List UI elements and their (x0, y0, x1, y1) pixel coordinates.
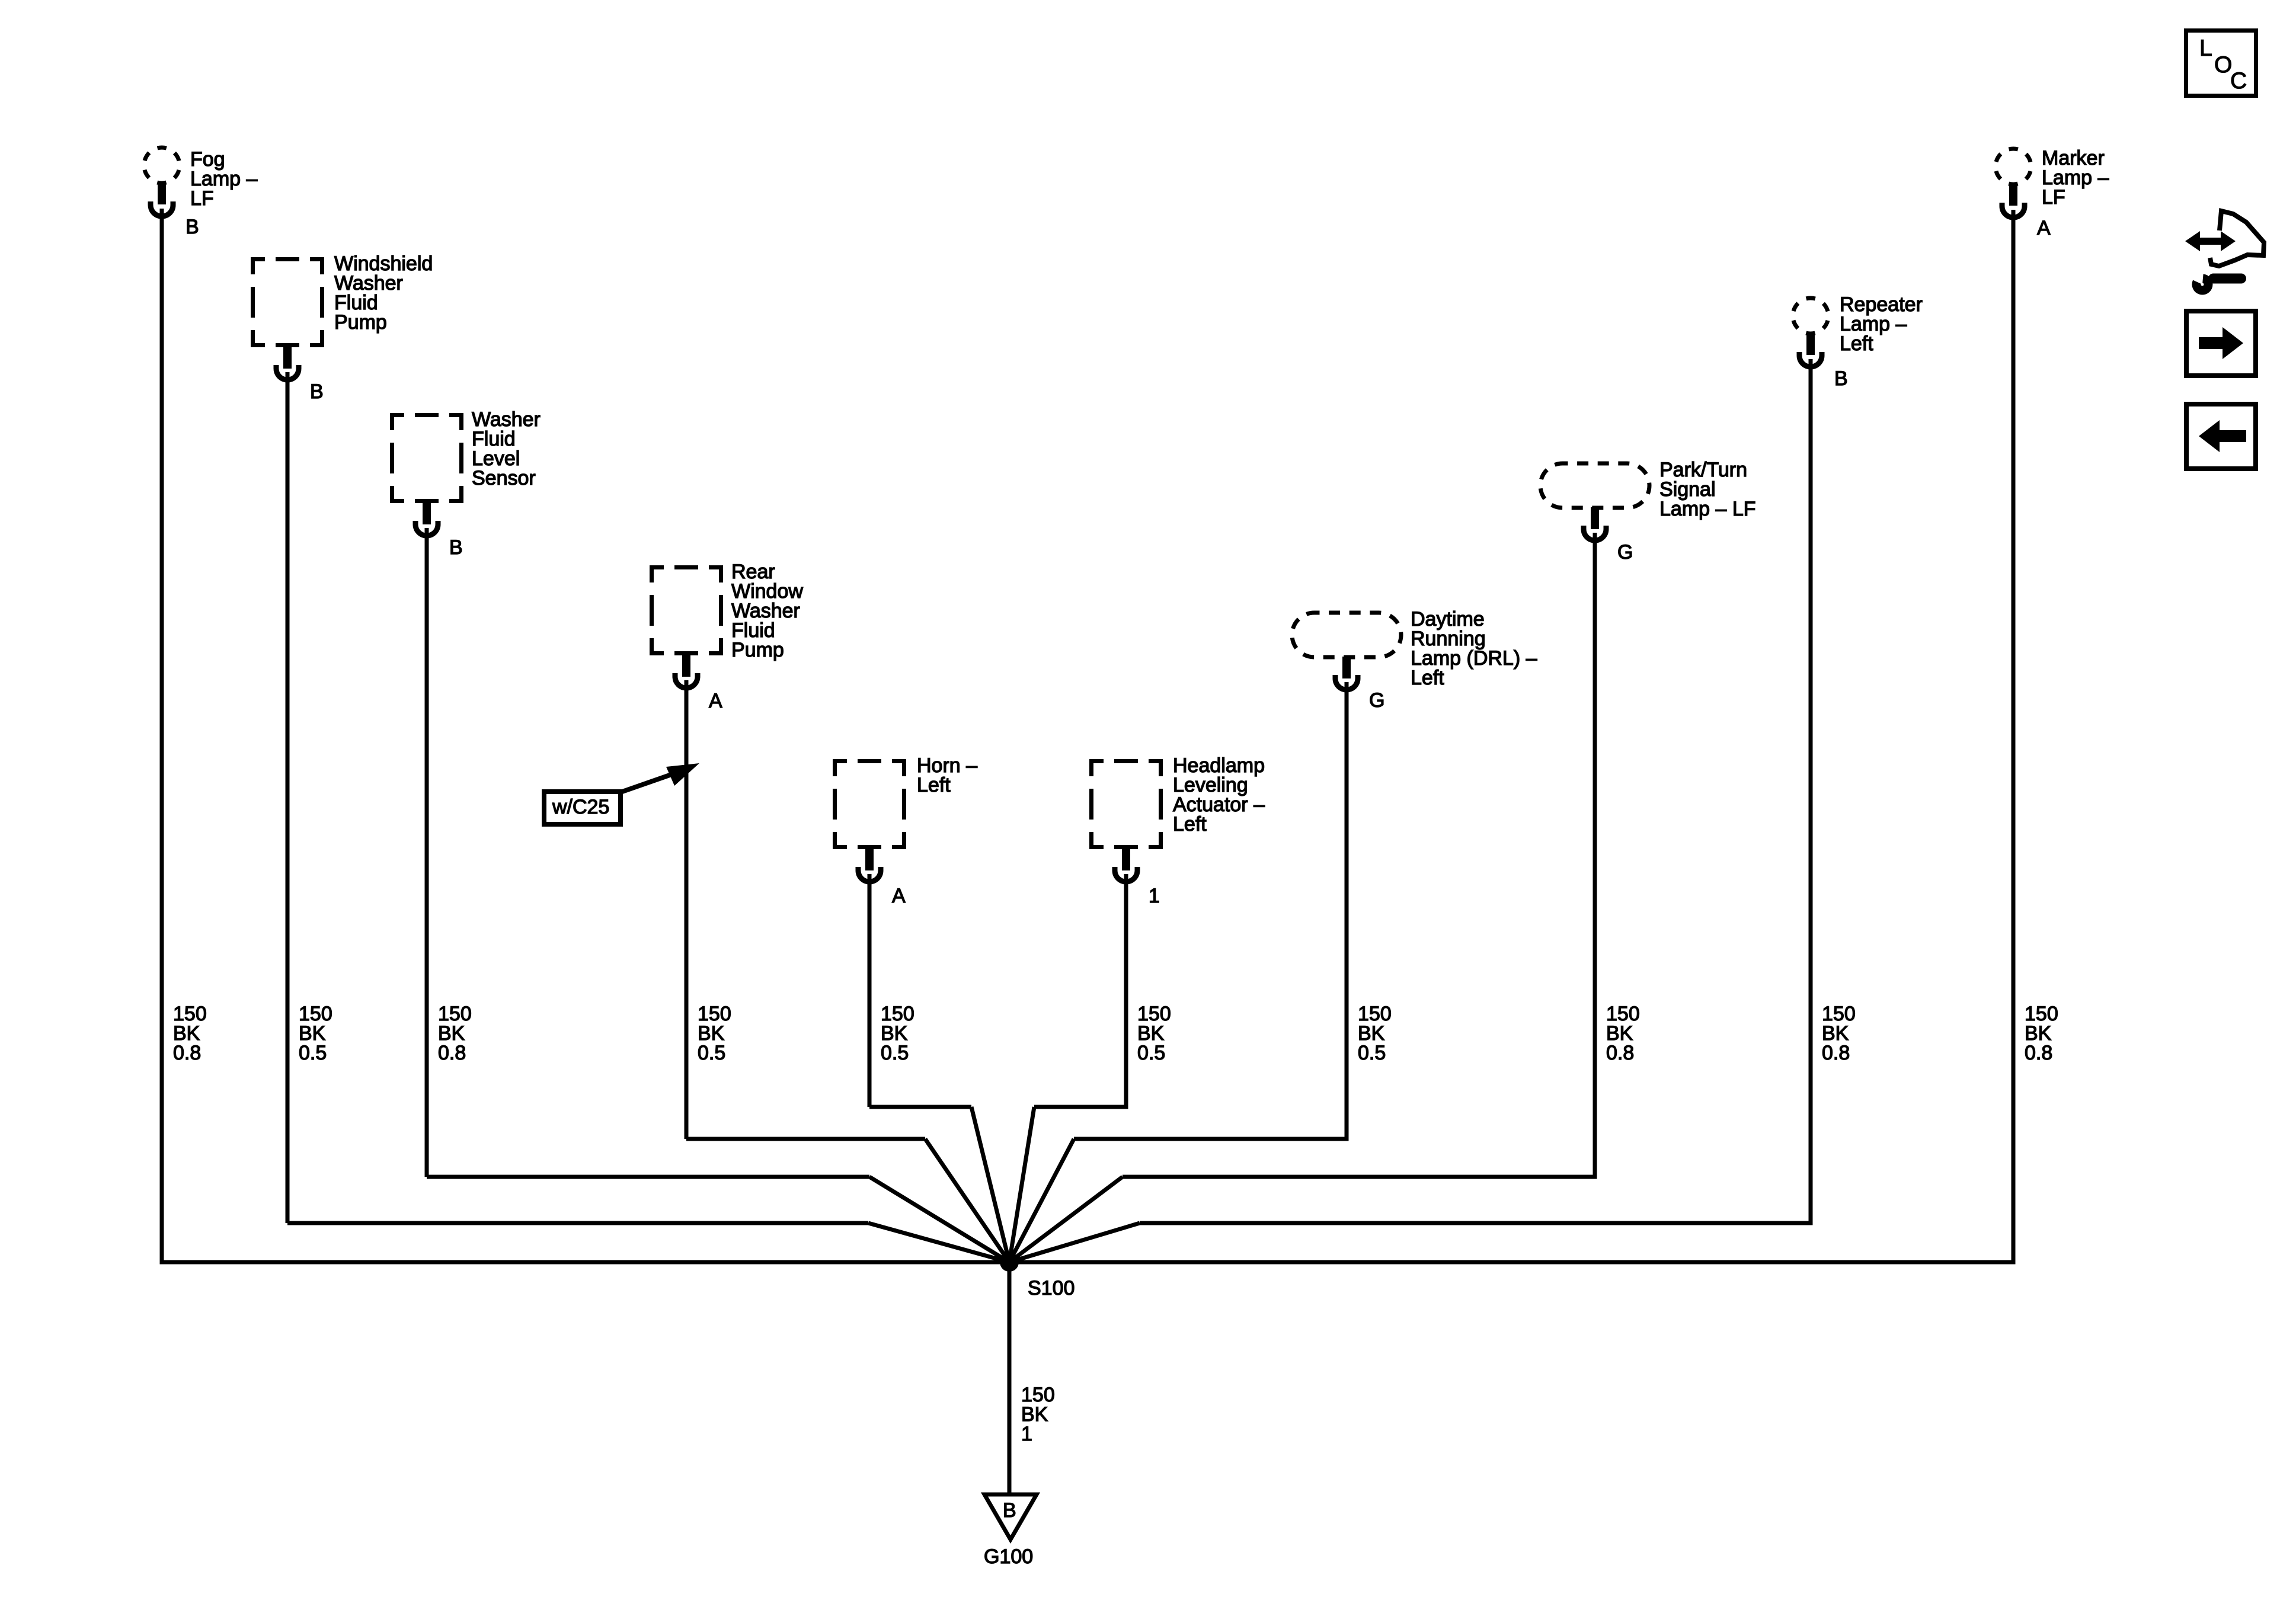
horn left (dashed box) (833, 754, 977, 882)
wire segment repeater run (1140, 1221, 1813, 1225)
wire from park/turn signal lamp LF pin G (1593, 533, 1597, 1177)
wire segment washer level feed (diagonal to S100) (869, 1177, 1009, 1262)
LOC locator icon (2186, 31, 2256, 96)
wire from rear window washer fluid pump pin A (685, 680, 689, 1139)
repeater lamp left (1793, 293, 1923, 367)
windshield washer fluid pump (dashed box) (251, 252, 433, 380)
svg-text:B: B (449, 536, 463, 559)
back arrow icon (2186, 404, 2256, 469)
part information icon (2185, 211, 2264, 290)
svg-text:B: B (1834, 367, 1848, 390)
svg-text:B: B (186, 216, 199, 238)
wire segment park/turn run (1123, 1175, 1597, 1179)
marker lamp LF (1996, 147, 2109, 217)
wire segment horn run (869, 1105, 971, 1109)
wire segment DRL run (1074, 1137, 1349, 1141)
wire from fog lamp LF pin B (160, 209, 164, 1264)
svg-text:A: A (892, 885, 906, 907)
daytime running lamp DRL left (dashed lamp outline) (1292, 608, 1537, 690)
wire segment headlamp feed (diagonal to S100) (1009, 1107, 1034, 1262)
fog lamp LF (144, 148, 257, 216)
wire segment washer level run (427, 1175, 869, 1179)
rear window washer fluid pump (dashed box) (650, 561, 803, 688)
wire from windshield washer fluid pump pin B (286, 372, 290, 1223)
svg-text:G: G (1369, 689, 1384, 712)
svg-text:L: L (2199, 36, 2212, 61)
wire segment DRL feed (diagonal to S100) (1009, 1139, 1074, 1262)
splice S100 (1000, 1253, 1019, 1272)
svg-text:B: B (1003, 1499, 1016, 1522)
wire segment rear window feed (diagonal to S100) (925, 1139, 1009, 1262)
wire S100 to G100 (1008, 1262, 1012, 1494)
park/turn signal lamp LF (dashed lamp outline) (1540, 459, 1756, 540)
wire segment headlamp run (1034, 1105, 1128, 1109)
wire segment ground bus (160, 1260, 2016, 1265)
ground G100 (984, 1494, 1037, 1568)
wire from daytime running lamp DRL left pin G (1345, 682, 1349, 1139)
wire segment park/turn feed (diagonal to S100) (1009, 1177, 1123, 1262)
svg-text:A: A (709, 690, 722, 712)
svg-text:w/C25: w/C25 (552, 796, 609, 818)
wire from headlamp leveling actuator left pin 1 (1124, 874, 1128, 1107)
svg-text:C: C (2230, 68, 2247, 94)
svg-text:B: B (310, 380, 324, 403)
wire segment horn feed (diagonal to S100) (971, 1107, 1009, 1262)
harness callout w/C25 (544, 763, 699, 824)
forward arrow icon (2186, 311, 2256, 376)
svg-text:G100: G100 (984, 1545, 1033, 1568)
svg-text:A: A (2037, 217, 2051, 239)
svg-text:1: 1 (1149, 885, 1160, 907)
wire from horn left pin A (868, 874, 872, 1107)
wire segment windshield feed (diagonal to S100) (868, 1223, 1009, 1262)
svg-text:O: O (2214, 52, 2232, 78)
wire from repeater lamp left pin B (1809, 359, 1813, 1223)
wire segment rear window run (686, 1137, 925, 1141)
wire from washer fluid level sensor pin B (425, 528, 429, 1177)
wire from marker lamp LF pin A (2012, 210, 2016, 1264)
washer fluid level sensor (dashed box) (390, 408, 541, 536)
wire segment windshield run (287, 1221, 868, 1225)
headlamp leveling actuator left (dashed box) (1089, 754, 1265, 882)
svg-text:S100: S100 (1028, 1277, 1075, 1299)
svg-text:G: G (1617, 541, 1633, 564)
wire segment repeater feed (diagonal to S100) (1009, 1223, 1140, 1262)
